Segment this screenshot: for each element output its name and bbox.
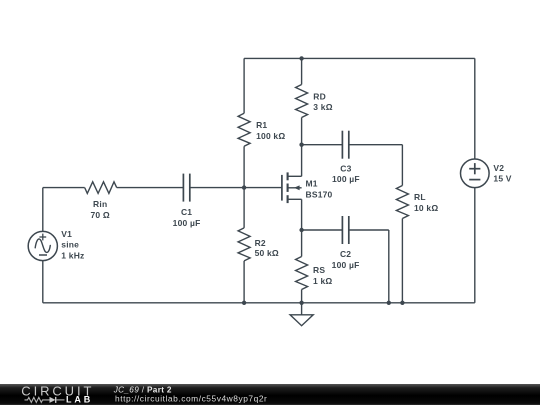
svg-text:R1: R1: [256, 120, 267, 130]
svg-text:R2: R2: [255, 238, 266, 248]
svg-text:C3: C3: [340, 163, 351, 173]
svg-text:RL: RL: [414, 192, 426, 202]
svg-text:M1: M1: [306, 178, 318, 188]
svg-text:C2: C2: [340, 249, 351, 259]
svg-text:100 µF: 100 µF: [332, 260, 360, 270]
svg-text:http://circuitlab.com/c55v4w8y: http://circuitlab.com/c55v4w8yp7q2r: [115, 393, 267, 403]
svg-text:1 kΩ: 1 kΩ: [313, 276, 332, 286]
svg-text:C1: C1: [181, 207, 192, 217]
svg-text:100 µF: 100 µF: [332, 174, 360, 184]
svg-text:RS: RS: [313, 265, 325, 275]
svg-text:V1: V1: [61, 229, 72, 239]
svg-text:70 Ω: 70 Ω: [90, 210, 109, 220]
svg-text:50 kΩ: 50 kΩ: [255, 248, 279, 258]
svg-text:100 µF: 100 µF: [173, 218, 201, 228]
svg-text:Rin: Rin: [93, 199, 107, 209]
svg-text:V2: V2: [493, 163, 504, 173]
svg-text:15 V: 15 V: [493, 174, 511, 184]
svg-text:100 kΩ: 100 kΩ: [256, 131, 285, 141]
svg-text:10 kΩ: 10 kΩ: [414, 203, 438, 213]
svg-text:sine: sine: [61, 240, 79, 250]
svg-text:BS170: BS170: [306, 189, 333, 199]
svg-text:1 kHz: 1 kHz: [61, 251, 84, 261]
svg-text:3 kΩ: 3 kΩ: [313, 102, 332, 112]
svg-text:RD: RD: [313, 91, 326, 101]
svg-text:LAB: LAB: [66, 395, 93, 405]
